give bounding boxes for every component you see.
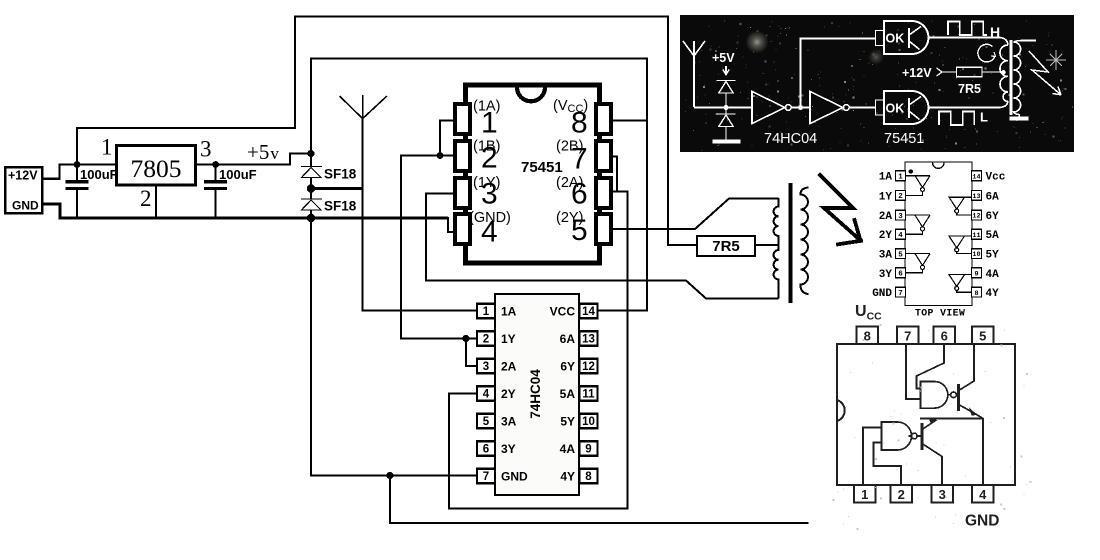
pinout pin 14 (Vcc) (972, 171, 982, 181)
capacitor C2 leads (215, 165, 217, 220)
photo gate1 (75451 driver) (884, 21, 929, 54)
svg-text:6A: 6A (986, 191, 1000, 203)
U2 pin 11 (5A) (580, 386, 598, 401)
svg-text:11: 11 (582, 389, 595, 401)
capacitor C2 100uF (204, 180, 227, 190)
internal gate G1 (921, 382, 948, 409)
photo gate1 input stub (876, 31, 885, 46)
U2 pin 4 (2Y) (477, 386, 495, 401)
figure 74HC04 pinout TOP VIEW (905, 162, 972, 306)
svg-text:4Y: 4Y (560, 470, 575, 484)
svg-text:GND: GND (12, 199, 39, 213)
svg-text:8: 8 (974, 290, 978, 298)
U1 pin 1 (455, 104, 470, 134)
transformer T1 primary winding (774, 198, 779, 299)
internal gate G2 (882, 422, 912, 450)
pinout pin 2 (1Y) (896, 191, 906, 201)
wire diode midpoint to antenna mast (311, 187, 363, 190)
svg-text:6Y: 6Y (560, 360, 575, 374)
internal transistor Q2 (920, 423, 923, 450)
svg-text:(2A): (2A) (556, 175, 583, 191)
junction node ground branch (386, 472, 393, 479)
svg-text:12: 12 (972, 213, 980, 221)
svg-text:100uF: 100uF (219, 167, 257, 182)
pinout inverter right 2 (949, 236, 972, 254)
wire 7805 pin 3 +5v (196, 154, 312, 165)
svg-text:2: 2 (898, 487, 905, 502)
wire diode chain vertical (311, 152, 478, 476)
internal figure pin 2 (891, 485, 913, 503)
svg-text:UCC: UCC (855, 303, 882, 323)
IC U1 75451 body (466, 85, 600, 263)
svg-text:3A: 3A (501, 415, 517, 429)
internal wire pin7 to gate1 (906, 344, 921, 399)
svg-text:5A: 5A (560, 387, 576, 401)
svg-text:GND: GND (965, 513, 999, 530)
U2 pin 3 (2A) (477, 359, 495, 374)
wire 1Y branch to 74HC04 pin 3 (466, 339, 478, 367)
wire 7805 pin 2 to ground (155, 184, 157, 218)
svg-text:SF18: SF18 (324, 167, 357, 182)
photo diode D2 (717, 110, 736, 140)
svg-text:8: 8 (585, 471, 592, 483)
pinout pin 4 (2Y) (896, 229, 906, 239)
pinout inverter left 1 (906, 176, 931, 196)
svg-text:+5v: +5v (247, 140, 279, 164)
svg-text:5: 5 (979, 329, 986, 344)
pinout pin 8 (4Y) (972, 287, 982, 297)
svg-text:1: 1 (101, 135, 113, 160)
pinout pin 12 (6Y) (972, 210, 982, 220)
svg-text:9: 9 (974, 270, 978, 278)
svg-text:1Y: 1Y (501, 332, 516, 346)
U1 pin 3 (455, 178, 470, 208)
photo inset background (680, 15, 1074, 152)
internal figure pin 1 (854, 485, 876, 503)
svg-text:4Y: 4Y (986, 288, 1000, 300)
svg-text:1A: 1A (879, 172, 893, 184)
svg-text:5: 5 (898, 251, 903, 259)
transformer T1 core (789, 183, 793, 303)
antenna (340, 95, 387, 119)
U2 pin 7 (GND) (477, 469, 495, 484)
svg-text:2A: 2A (879, 211, 893, 223)
svg-text:H: H (990, 24, 1000, 40)
photo gate1 output wire (929, 38, 1008, 46)
photo gate2 transistor (908, 98, 910, 118)
U2 pin 13 (6A) (580, 331, 598, 346)
junction node between diodes (307, 184, 315, 192)
resistor R1 7R5 (697, 236, 755, 256)
photo wire antenna to inverter (694, 107, 752, 109)
photo rotation arrow (978, 44, 995, 62)
IC U2 74HC04 body (495, 294, 579, 495)
svg-text:TOP VIEW: TOP VIEW (915, 308, 965, 319)
figure 75451 internal schematic body (837, 344, 1015, 485)
pinout pin1 dot (909, 169, 913, 173)
wire 75451 pin 7 tie to pin 6 (611, 157, 617, 192)
svg-text:12: 12 (582, 361, 595, 373)
U2 pin 1 (1A) (477, 304, 495, 319)
svg-text:OK: OK (886, 32, 905, 46)
U2 pin 14 (VCC) (580, 304, 598, 319)
capacitor C1 100uF (66, 180, 89, 190)
U2 pin 10 (5Y) (580, 414, 598, 429)
svg-text:Vcc: Vcc (986, 172, 1006, 184)
svg-text:6A: 6A (560, 332, 576, 346)
svg-text:5: 5 (483, 416, 490, 428)
photo gate2 input stub (876, 100, 885, 115)
wire 75451 pins 6,7 to 74HC04 pin 4 (449, 192, 628, 509)
U2 pin 8 (4Y) (580, 469, 598, 484)
photo square wave H (948, 22, 987, 36)
photo galaxy blob (746, 31, 769, 54)
photo diode D1 (717, 81, 736, 106)
junction node at 7805 input (74, 161, 81, 168)
pinout notch (932, 163, 944, 169)
U2 pin 5 (3A) (477, 414, 495, 429)
scan speckle noise bottom-right (832, 324, 1031, 530)
regulator 7805 (117, 146, 196, 186)
U2 pin 12 (6Y) (580, 359, 598, 374)
svg-text:L: L (980, 110, 988, 125)
svg-text:1A: 1A (501, 305, 517, 319)
svg-text:+12V: +12V (8, 169, 38, 183)
U2 pin 2 (1Y) (477, 331, 495, 346)
photo center tap dot (1001, 70, 1006, 75)
photo ground lead (1018, 114, 1020, 117)
svg-text:3A: 3A (879, 250, 893, 262)
pinout pin 13 (6A) (972, 191, 982, 201)
svg-text:3: 3 (939, 487, 946, 502)
wire 75451 pin 8 to +5v rail (611, 120, 647, 122)
junction node diode to ground bus (307, 214, 315, 222)
svg-text:1: 1 (861, 487, 868, 502)
svg-text:+5V: +5V (712, 51, 735, 65)
svg-text:(1B): (1B) (473, 139, 500, 155)
internal figure pin 8 (857, 327, 879, 345)
junction node 75451 pin1/pin2 tie (437, 152, 444, 159)
photo star sparkle (1046, 50, 1066, 70)
svg-text:4A: 4A (986, 269, 1000, 281)
svg-text:6: 6 (483, 444, 489, 456)
diode D2 SF18 (301, 199, 322, 210)
svg-text:74HC04: 74HC04 (764, 131, 817, 147)
svg-text:13: 13 (582, 334, 595, 346)
wire outer +12V loop to 7R5 (77, 17, 697, 246)
photo inverter 2 (810, 92, 843, 124)
pinout pin 1 (1A) (896, 171, 906, 181)
internal emitter bus to pin 4 (920, 418, 983, 420)
wire +5v loop to 74HC04 VCC pin 14 (311, 59, 647, 311)
junction node at 7805 output (212, 161, 219, 168)
Q1 emitter arrowhead (969, 408, 978, 416)
wire GND step into 75451 pin 4 (448, 217, 456, 232)
svg-text:3: 3 (898, 213, 903, 221)
wire 7R5 to transformer center tap (755, 244, 779, 246)
pinout inverter left 2 (906, 215, 931, 234)
photo square wave L (939, 112, 974, 126)
svg-text:6: 6 (941, 329, 948, 344)
junction node +5v at diode top (307, 150, 314, 157)
pinout pin 6 (3Y) (896, 268, 906, 278)
photo transformer right winding (1014, 41, 1036, 115)
svg-text:10: 10 (582, 416, 595, 428)
svg-text:8: 8 (864, 329, 871, 344)
svg-text:3Y: 3Y (879, 269, 893, 281)
svg-text:13: 13 (972, 193, 980, 201)
pinout pin 7 (GND) (896, 287, 906, 297)
pinout inverter left 3 (906, 254, 931, 273)
svg-text:7: 7 (898, 290, 903, 298)
svg-text:14: 14 (582, 306, 595, 318)
photo wire inv1 to inv2 (791, 107, 810, 109)
svg-text:11: 11 (972, 232, 980, 240)
svg-text:2: 2 (898, 193, 903, 201)
diode D1 SF18 (301, 167, 322, 178)
svg-text:4: 4 (898, 232, 903, 240)
wire antenna mast to 74HC04 pin 1 (363, 117, 478, 311)
svg-text:7R5: 7R5 (958, 82, 981, 96)
photo lightning arrow (1029, 51, 1061, 95)
Q2 emitter arrowhead (929, 418, 936, 425)
U1 pin 2 (455, 141, 470, 171)
photo gate1 transistor (908, 28, 910, 48)
svg-text:10: 10 (972, 251, 980, 259)
svg-text:(2B): (2B) (556, 139, 583, 155)
svg-text:75451: 75451 (521, 159, 563, 176)
svg-text:7R5: 7R5 (712, 238, 740, 255)
internal wire pin1 to gate2 (863, 428, 882, 486)
photo +5V arrow (723, 66, 729, 75)
input terminal block +12V/GND (5, 167, 42, 213)
svg-text:2Y: 2Y (501, 387, 516, 401)
svg-text:SF18: SF18 (324, 199, 357, 214)
photo ground bar (713, 140, 741, 144)
U1 pin 6 (596, 178, 611, 208)
U1 pin 8 (596, 104, 611, 134)
photo junction dot inverters (798, 105, 803, 110)
photo gate2 (75451 driver) (884, 91, 929, 124)
svg-text:4: 4 (483, 389, 490, 401)
svg-text:GND: GND (872, 288, 892, 300)
photo wire inv2 to gate2 (849, 107, 875, 109)
svg-text:6: 6 (898, 271, 903, 279)
pinout pin 10 (5Y) (972, 249, 982, 259)
RF emission arrow (820, 175, 861, 244)
U1 pin 5 (596, 214, 611, 244)
U2 pin 6 (3Y) (477, 441, 495, 456)
svg-text:75451: 75451 (884, 131, 924, 147)
photo transformer core (1009, 40, 1012, 115)
U1 pin 7 (596, 141, 611, 171)
wire +12V terminal to 7805 pin 1 (42, 165, 117, 179)
svg-text:2Y: 2Y (879, 230, 893, 242)
pinout inverter right 1 (949, 197, 972, 215)
photo +12V chevron (937, 68, 943, 76)
wire 75451 pin 5 to transformer upper (611, 199, 779, 230)
svg-text:5A: 5A (986, 230, 1000, 242)
photo noise speckle (685, 20, 1065, 151)
wire 75451 pin 3 to transformer lower (426, 194, 779, 299)
transformer T1 secondary winding (800, 188, 808, 295)
svg-text:3: 3 (483, 361, 489, 373)
photo wire to gate1 (801, 39, 876, 108)
internal figure pin 3 (932, 485, 954, 503)
svg-text:100uF: 100uF (80, 167, 118, 182)
svg-text:74HC04: 74HC04 (528, 369, 543, 419)
svg-text:1: 1 (483, 306, 490, 318)
internal wire pin2 to gate2 (874, 443, 902, 486)
U1 pin numbers (481, 107, 588, 249)
photo ground bar right (1010, 117, 1029, 121)
wire GND terminal bus (42, 204, 448, 218)
svg-text:7805: 7805 (131, 154, 182, 183)
svg-text:14: 14 (972, 173, 980, 181)
svg-text:4: 4 (979, 487, 987, 502)
svg-text:3: 3 (200, 137, 212, 162)
U2 pin 9 (4A) (580, 441, 598, 456)
pinout pin 9 (4A) (972, 268, 982, 278)
wire ground bus to transformer secondary (390, 476, 809, 524)
svg-text:VCC: VCC (550, 305, 576, 319)
svg-text:3Y: 3Y (501, 442, 516, 456)
svg-text:1Y: 1Y (879, 191, 893, 203)
junction node 74HC04 1Y branch (462, 335, 469, 342)
photo inverter 1 (752, 92, 785, 124)
svg-text:6Y: 6Y (986, 211, 1000, 223)
svg-text:(1A): (1A) (473, 99, 500, 115)
photo resistor 7R5 (942, 71, 957, 73)
pinout inverter right 3 (949, 275, 972, 293)
svg-text:4A: 4A (560, 442, 576, 456)
svg-text:(GND): (GND) (469, 210, 511, 226)
internal figure notch (837, 400, 845, 421)
internal figure pin 6 (934, 327, 956, 345)
pinout pin 5 (3A) (896, 249, 906, 259)
svg-text:(1Y): (1Y) (473, 175, 500, 191)
pinout body (905, 162, 972, 306)
internal figure pin 7 (897, 327, 919, 345)
internal transistor Q1 (957, 384, 960, 411)
photo transformer left winding (1000, 45, 1008, 102)
svg-text:(2Y): (2Y) (556, 210, 583, 226)
pinout pin 11 (5A) (972, 229, 982, 239)
U1 pin 4 (455, 214, 470, 244)
wire 74HC04 1Y to 75451 pins 1,2 (401, 156, 478, 339)
U1 pin function labels (469, 98, 588, 226)
photo gate2 output wire (929, 101, 1008, 108)
svg-text:OK: OK (886, 102, 905, 116)
photo antenna (683, 41, 705, 107)
svg-text:5Y: 5Y (560, 415, 575, 429)
capacitor C1 leads (76, 165, 78, 220)
internal wire pin6 to gate1 (917, 344, 945, 389)
pinout pin 3 (2A) (896, 210, 906, 220)
svg-text:5Y: 5Y (986, 250, 1000, 262)
internal figure pin 4 (972, 485, 994, 503)
svg-text:1: 1 (898, 174, 903, 182)
svg-text:2: 2 (483, 334, 489, 346)
svg-text:7: 7 (904, 329, 911, 344)
svg-text:9: 9 (585, 444, 591, 456)
wire 75451 pin 1 tie (440, 121, 456, 156)
svg-text:7: 7 (483, 471, 489, 483)
svg-text:2: 2 (140, 186, 152, 211)
svg-text:2A: 2A (501, 360, 517, 374)
svg-text:+12V: +12V (902, 66, 932, 80)
internal figure pin 5 (972, 327, 994, 345)
svg-text:GND: GND (501, 470, 528, 484)
